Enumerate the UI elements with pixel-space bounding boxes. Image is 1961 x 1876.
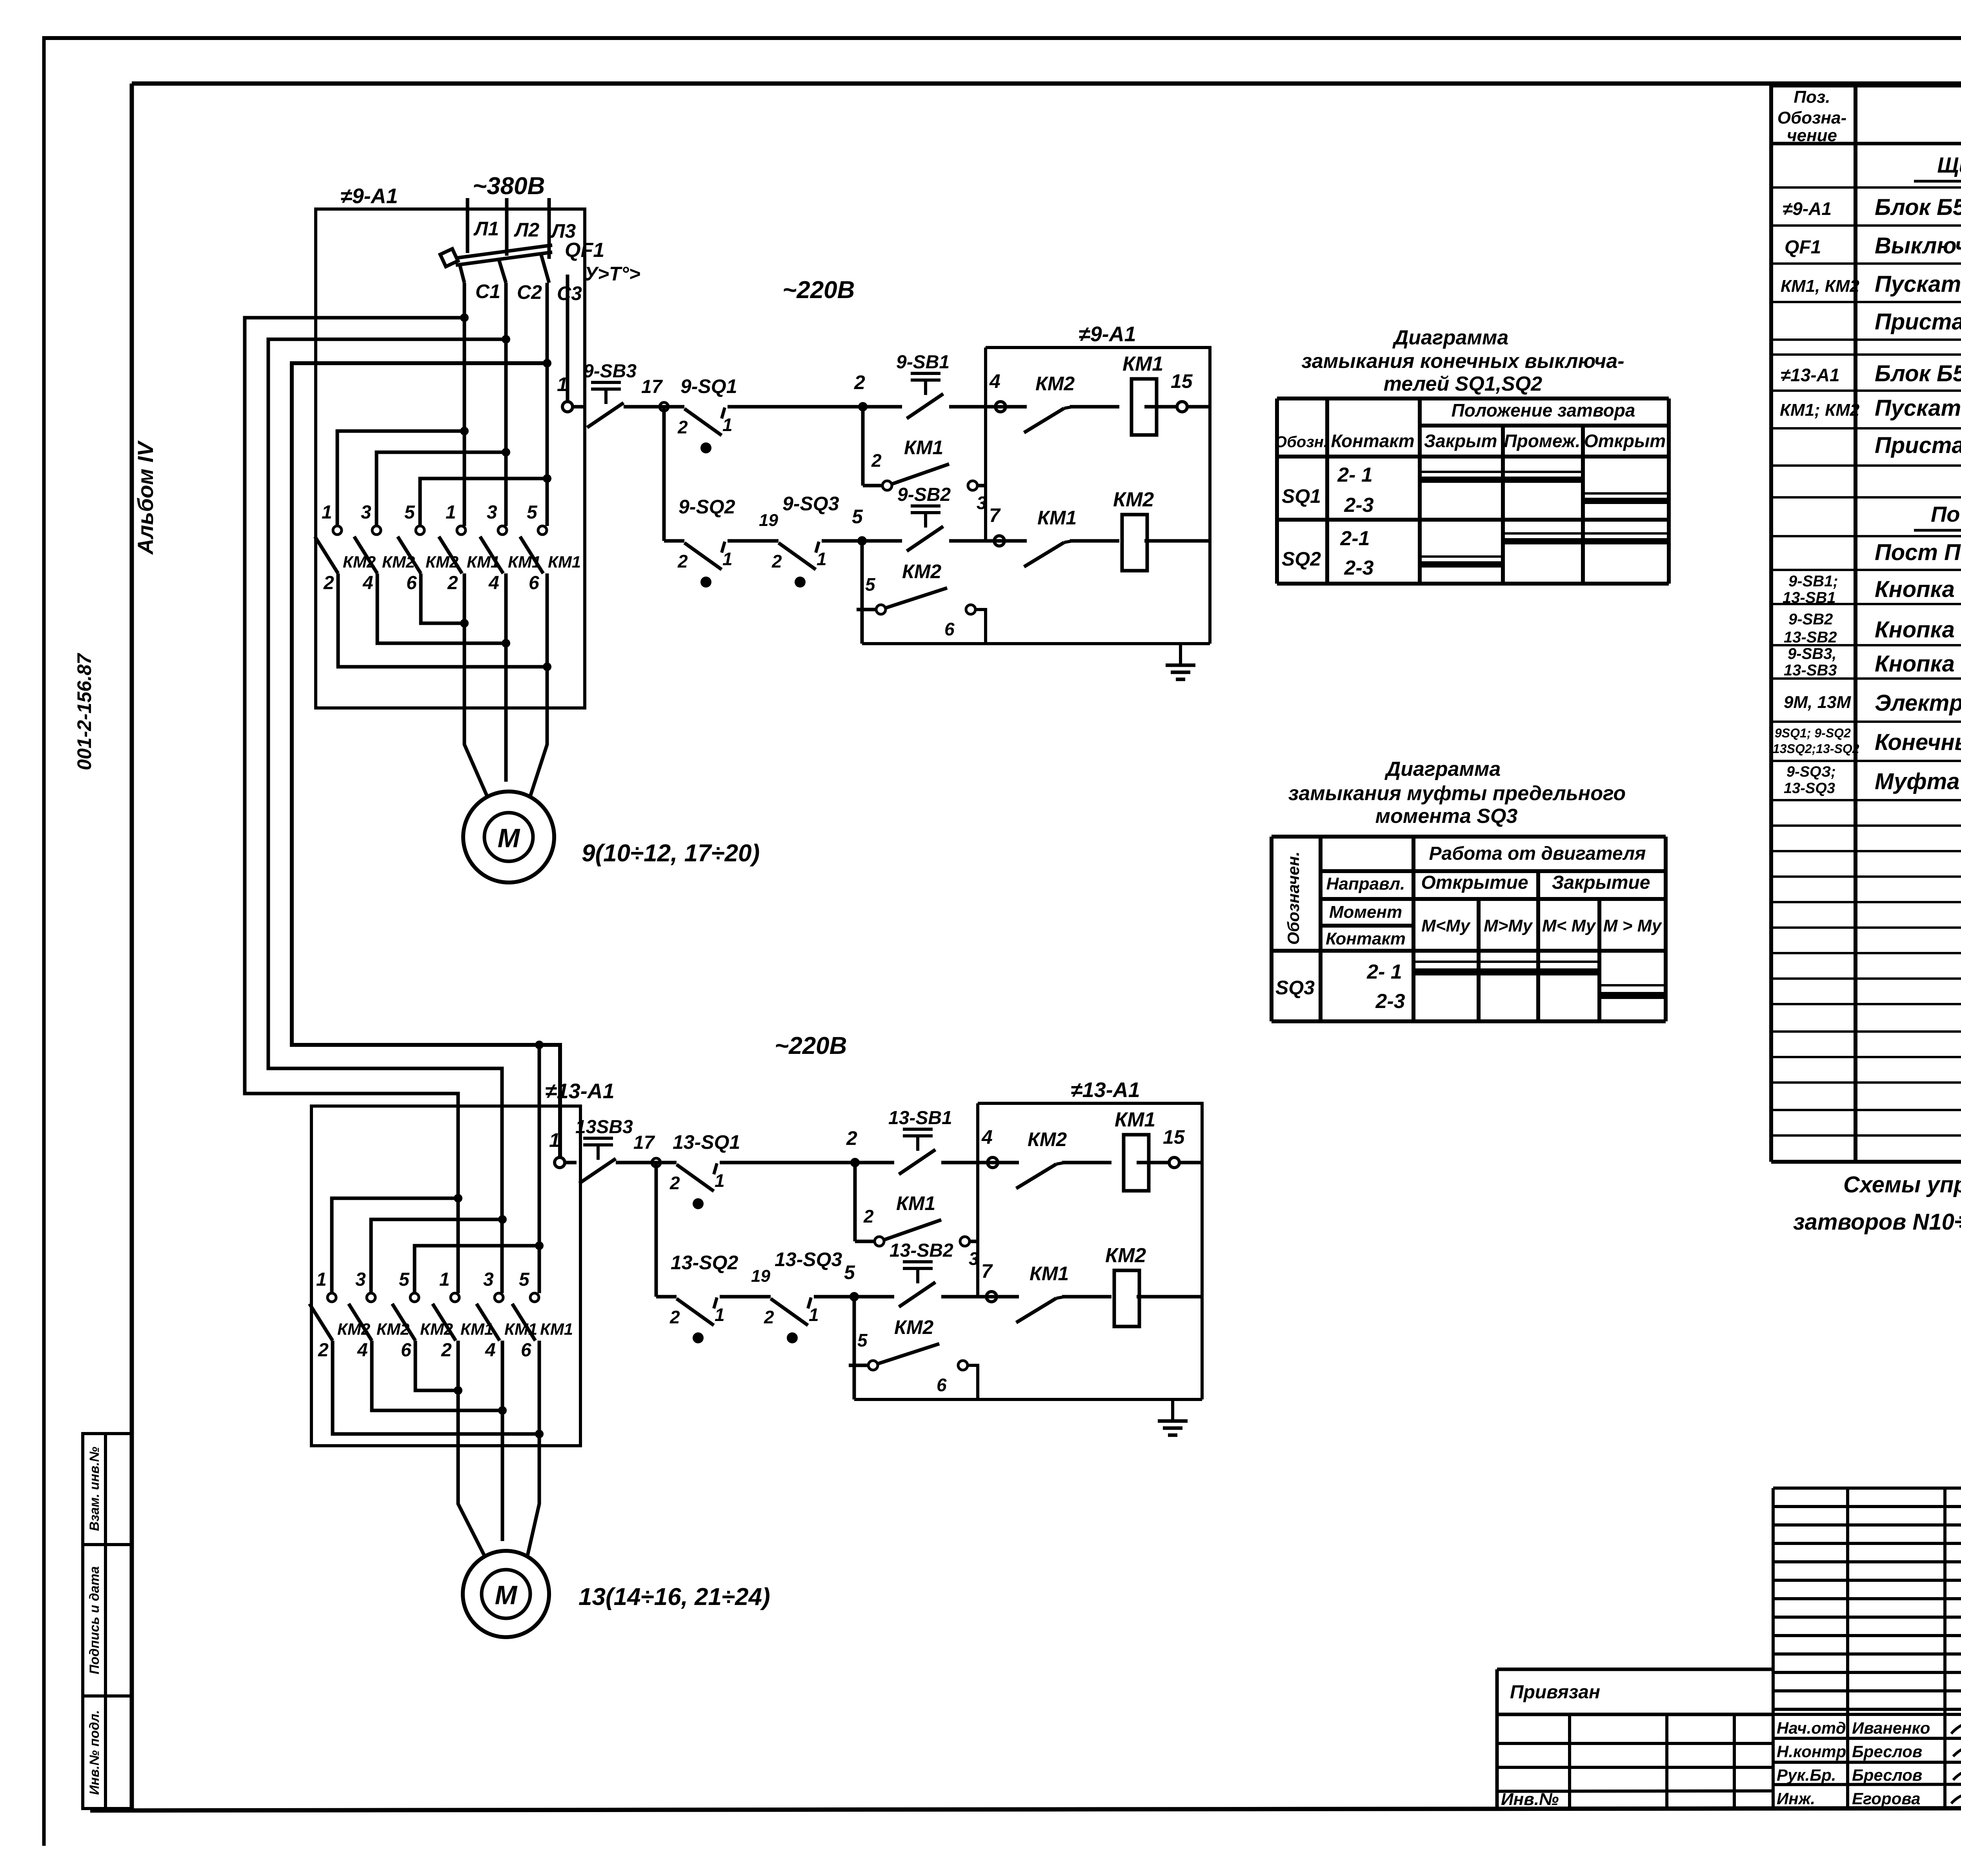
- svg-text:КМ1: КМ1: [1115, 1108, 1155, 1131]
- svg-text:С2: С2: [517, 281, 542, 303]
- button 13-SB1: [888, 1108, 952, 1174]
- svg-text:Кнопка 1з+1р „Стоп”: Кнопка 1з+1р „Стоп”: [1875, 651, 1961, 677]
- svg-text:КМ2: КМ2: [1035, 373, 1075, 395]
- svg-text:13SB3: 13SB3: [575, 1117, 633, 1137]
- node 5 9: [852, 506, 867, 546]
- wire supply loop B to lower unit: [268, 339, 506, 1293]
- svg-text:6: 6: [521, 1340, 531, 1361]
- svg-text:2-1: 2-1: [1340, 527, 1370, 550]
- svg-text:1: 1: [316, 1269, 327, 1290]
- svg-text:Работа от двигателя: Работа от двигателя: [1429, 843, 1646, 864]
- diagram2 table grid: [1272, 837, 1666, 1021]
- contact КМ2: [1016, 1128, 1067, 1188]
- wire motor feed lines 9: [464, 573, 547, 796]
- svg-text:КМ1: КМ1: [904, 437, 943, 459]
- svg-text:3: 3: [487, 502, 497, 523]
- svg-text:7: 7: [981, 1260, 993, 1282]
- svg-text:Подпись и дата: Подпись и дата: [87, 1566, 102, 1674]
- svg-text:затворов N10÷12; 14÷24 схемы а: затворов N10÷12; 14÷24 схемы аналогичны.: [1793, 1209, 1961, 1235]
- svg-text:17: 17: [641, 377, 663, 397]
- svg-text:Блок Б5437-3074гУхл4: Блок Б5437-3074гУхл4: [1875, 195, 1961, 220]
- svg-text:Закрытие: Закрытие: [1552, 872, 1650, 893]
- svg-text:9-SB3: 9-SB3: [583, 361, 637, 382]
- svg-text:2: 2: [441, 1340, 452, 1361]
- wire control tap from phase C3: [566, 275, 569, 402]
- svg-text:9-SB2: 9-SB2: [897, 484, 951, 505]
- svg-text:~380В: ~380В: [473, 173, 545, 200]
- parts table header row line: [1771, 142, 1961, 146]
- wire node5 down 13: [853, 1297, 856, 1399]
- diagram2 closure bar SQ3 2-1: [1413, 968, 1599, 975]
- svg-text:2: 2: [764, 1307, 774, 1327]
- wire return rail 13: [854, 1398, 1202, 1401]
- limit switch 13SQ1: [673, 1131, 740, 1153]
- svg-text:3: 3: [977, 493, 987, 513]
- wire control second row 9: [664, 539, 1210, 543]
- svg-text:2: 2: [669, 1307, 680, 1327]
- node 1 13: [549, 1129, 565, 1168]
- svg-text:1: 1: [439, 1269, 450, 1290]
- title block revision column grid: [1773, 1488, 1961, 1809]
- title block bottom-left grid: [1497, 1714, 1773, 1808]
- selfhold contact KM1 9: [863, 437, 987, 513]
- wire KM2 contact bottom loops 13: [333, 1341, 539, 1434]
- diagram2 subrow line SQ3: [1413, 962, 1666, 985]
- svg-text:Иваненко: Иваненко: [1852, 1719, 1930, 1737]
- svg-text:замыкания муфты предельного: замыкания муфты предельного: [1288, 782, 1626, 805]
- wire supply loop C to lower unit: [292, 363, 560, 1157]
- block box 13-A1 power: [311, 1079, 615, 1446]
- svg-text:КМ1, КМ2: КМ1, КМ2: [1781, 277, 1859, 296]
- svg-text:6: 6: [401, 1340, 411, 1361]
- svg-text:1: 1: [322, 502, 332, 523]
- wire KM2 contact top loops 13: [332, 1198, 539, 1293]
- svg-text:2-3: 2-3: [1344, 557, 1373, 579]
- svg-text:9(10÷12, 17÷20): 9(10÷12, 17÷20): [582, 840, 760, 867]
- svg-text:~220В: ~220В: [775, 1032, 847, 1059]
- svg-text:2- 1: 2- 1: [1366, 961, 1402, 983]
- svg-text:2-3: 2-3: [1344, 494, 1373, 517]
- svg-text:Пускатель ПМЛ150104В: Пускатель ПМЛ150104В: [1875, 271, 1961, 297]
- svg-text:5: 5: [865, 574, 876, 595]
- diagram1 subrow line SQ2: [1420, 533, 1669, 557]
- svg-text:13-SB2: 13-SB2: [1784, 629, 1837, 646]
- block box 9-А1 control: [986, 322, 1210, 644]
- svg-text:9-SQ2: 9-SQ2: [679, 496, 735, 518]
- svg-text:чение: чение: [1787, 126, 1837, 145]
- svg-text:3: 3: [355, 1269, 366, 1290]
- node 7 9: [989, 504, 1004, 546]
- svg-text:19: 19: [759, 511, 778, 530]
- button 9-SB1: [896, 352, 950, 419]
- svg-text:5: 5: [404, 502, 415, 523]
- svg-text:2: 2: [447, 573, 458, 593]
- wire node2 to selfhold 9: [861, 407, 865, 486]
- svg-text:3: 3: [361, 502, 371, 523]
- svg-text:1: 1: [817, 549, 827, 569]
- wire control main row 9: [572, 405, 1210, 409]
- svg-text:9-SQ1: 9-SQ1: [680, 375, 737, 397]
- svg-text:~220В: ~220В: [782, 277, 855, 304]
- svg-text:6: 6: [529, 573, 539, 593]
- stamp table bottom-left frame: [83, 1434, 131, 1809]
- svg-text:Блок Б5438 -3074гУхл4: Блок Б5438 -3074гУхл4: [1875, 361, 1961, 386]
- svg-text:4: 4: [989, 370, 1001, 392]
- title block signatures: [1951, 1722, 1961, 1808]
- svg-text:Конечные выключатели: Конечные выключатели: [1875, 730, 1961, 755]
- svg-text:13SQ2;13-SQ2: 13SQ2;13-SQ2: [1773, 742, 1859, 756]
- svg-text:SQ2: SQ2: [1282, 548, 1321, 570]
- wire return rail 9: [862, 642, 1210, 645]
- svg-text:≠9-А1: ≠9-А1: [1079, 322, 1136, 346]
- limit switch 9SQ1: [680, 375, 737, 397]
- svg-text:М>Му: М>Му: [1484, 916, 1534, 935]
- svg-text:Л2: Л2: [514, 219, 539, 241]
- svg-text:С3: С3: [557, 282, 582, 304]
- contact КМ2: [1024, 373, 1075, 433]
- svg-text:3: 3: [483, 1269, 494, 1290]
- svg-text:Инв.№: Инв.№: [1501, 1790, 1559, 1809]
- svg-text:7: 7: [989, 504, 1001, 526]
- svg-text:13-SQ1: 13-SQ1: [673, 1131, 740, 1153]
- page top border line: [42, 36, 1961, 40]
- wire branch to lower phase C: [538, 1045, 541, 1293]
- svg-text:13-SB1: 13-SB1: [888, 1108, 952, 1128]
- svg-text:13-SQ3: 13-SQ3: [775, 1248, 842, 1270]
- coil 9 KM2: [1113, 488, 1154, 571]
- svg-text:4: 4: [357, 1340, 368, 1361]
- svg-text:2-3: 2-3: [1375, 990, 1405, 1013]
- svg-text:1: 1: [722, 415, 733, 435]
- contact КМ1: [1024, 507, 1077, 567]
- svg-text:1: 1: [715, 1170, 725, 1191]
- svg-text:Кнопка 1з +1р „ Закрыть”: Кнопка 1з +1р „ Закрыть”: [1875, 617, 1961, 642]
- svg-text:2: 2: [846, 1127, 857, 1149]
- svg-text:М: М: [498, 823, 520, 853]
- button 13SB3: [575, 1117, 633, 1183]
- svg-text:Егорова: Егорова: [1852, 1789, 1921, 1808]
- wire node2 to selfhold 13: [853, 1163, 857, 1241]
- svg-text:Электродвигатель 4АХС 80А4У3: Электродвигатель 4АХС 80А4У3: [1875, 690, 1961, 716]
- node 2 9: [854, 371, 868, 411]
- svg-text:9М, 13М: 9М, 13М: [1784, 693, 1852, 712]
- svg-text:19: 19: [751, 1266, 770, 1286]
- svg-text:Приставка ПКЛ 2004: Приставка ПКЛ 2004: [1875, 309, 1961, 335]
- svg-text:9-SQ3: 9-SQ3: [782, 493, 839, 515]
- svg-text:9-SB2: 9-SB2: [1788, 611, 1833, 628]
- svg-text:6: 6: [944, 619, 955, 639]
- node 15 13: [1163, 1126, 1185, 1168]
- wire control main row 13: [564, 1161, 1202, 1165]
- svg-text:КМ2: КМ2: [1028, 1128, 1067, 1150]
- svg-text:5: 5: [857, 1330, 868, 1350]
- svg-text:Пускатель ПМЛ150104В: Пускатель ПМЛ150104В: [1875, 395, 1961, 421]
- svg-text:Приставка ПКЛ2004: Приставка ПКЛ2004: [1875, 433, 1961, 458]
- wire node17 down 9: [662, 407, 666, 541]
- svg-text:6: 6: [937, 1375, 947, 1395]
- svg-text:Контакт: Контакт: [1331, 431, 1414, 451]
- svg-text:КМ1; КМ2: КМ1; КМ2: [1780, 400, 1860, 420]
- svg-text:По месту: По месту: [1931, 502, 1961, 526]
- diagram1 closure bar SQ1 2-3: [1583, 498, 1669, 504]
- svg-text:Открыт: Открыт: [1584, 431, 1666, 451]
- selfhold contact KM2 9: [862, 610, 986, 644]
- svg-text:замыкания конечных выключа-: замыкания конечных выключа-: [1301, 350, 1624, 373]
- svg-text:1: 1: [809, 1305, 819, 1325]
- button 9-SB2: [897, 484, 951, 551]
- diagram1 closure bar SQ2 2-1: [1503, 538, 1669, 544]
- svg-text:9-SQЗ;: 9-SQЗ;: [1786, 764, 1836, 780]
- svg-text:1: 1: [715, 1305, 725, 1325]
- diagram1 table grid: [1277, 398, 1669, 584]
- svg-text:Момент: Момент: [1329, 903, 1402, 922]
- svg-text:Выключатель АЕ2026-10НУ3-Б: Выключатель АЕ2026-10НУ3-Б: [1875, 233, 1961, 258]
- block box 13-А1 control: [978, 1078, 1202, 1399]
- coil 13 KM2: [1105, 1244, 1146, 1326]
- svg-text:5: 5: [852, 506, 863, 528]
- button 13-SB2: [890, 1240, 953, 1307]
- svg-text:2: 2: [871, 450, 882, 471]
- terminal labels C1 C2 C3: [475, 280, 582, 304]
- diagram1 closure bar SQ1 2-1: [1420, 477, 1583, 483]
- circuit breaker QF1: [440, 239, 640, 285]
- node 2 13: [846, 1127, 860, 1167]
- svg-text:Альбом IV: Альбом IV: [133, 440, 158, 555]
- svg-text:Диаграмма: Диаграмма: [1392, 326, 1509, 349]
- node 7 13: [981, 1260, 997, 1302]
- svg-text:≠13-А1: ≠13-А1: [1071, 1078, 1140, 1102]
- svg-text:КМ2: КМ2: [1113, 488, 1154, 511]
- svg-text:9-SB1: 9-SB1: [896, 352, 950, 373]
- node 17 13: [633, 1132, 660, 1167]
- svg-text:КМ1: КМ1: [896, 1192, 935, 1214]
- svg-text:4: 4: [362, 573, 373, 593]
- svg-text:Обозн.: Обозн.: [1275, 433, 1328, 451]
- svg-text:5: 5: [844, 1261, 855, 1283]
- svg-text:9-SB1;: 9-SB1;: [1788, 573, 1838, 590]
- node 4 9: [989, 370, 1006, 412]
- svg-text:Н.контр: Н.контр: [1777, 1742, 1846, 1761]
- svg-text:Пост ПКЕ-112-3У3: Пост ПКЕ-112-3У3: [1875, 540, 1961, 565]
- block box 9-A1 power: [316, 184, 585, 708]
- svg-text:1: 1: [722, 549, 733, 569]
- svg-text:≠9-А1: ≠9-А1: [1783, 198, 1832, 219]
- phase input stubs L1 L2 L3: [468, 198, 576, 259]
- svg-text:Инв.№ подл.: Инв.№ подл.: [87, 1710, 102, 1795]
- diagram1 closure bar SQ2 2-3: [1420, 561, 1503, 568]
- diagram2 closure bar SQ3 2-3: [1599, 992, 1666, 999]
- wire KM2 contact bottom loops 9: [338, 573, 547, 667]
- svg-text:15: 15: [1171, 370, 1193, 392]
- svg-text:Обозначен.: Обозначен.: [1284, 852, 1302, 945]
- svg-text:М > Му: М > Му: [1603, 916, 1663, 935]
- svg-text:Схемы управления выполнены для: Схемы управления выполнены для затворов …: [1843, 1172, 1961, 1197]
- page outer left border line: [42, 36, 46, 1846]
- svg-text:Бреслов: Бреслов: [1852, 1742, 1922, 1761]
- wire control second row 13: [656, 1295, 1202, 1299]
- svg-text:С1: С1: [475, 280, 500, 302]
- svg-text:телей SQ1,SQ2: телей SQ1,SQ2: [1384, 373, 1543, 395]
- svg-text:У>Т°>: У>Т°>: [584, 263, 640, 285]
- svg-text:1: 1: [549, 1129, 560, 1151]
- limit switch 9SQ2: [679, 496, 778, 530]
- svg-text:Контакт: Контакт: [1326, 929, 1406, 948]
- svg-text:КМ1: КМ1: [1037, 507, 1077, 529]
- svg-text:1: 1: [557, 373, 568, 395]
- svg-text:КМ2: КМ2: [1105, 1244, 1146, 1267]
- svg-text:Диаграмма: Диаграмма: [1384, 758, 1501, 781]
- svg-text:2: 2: [771, 551, 782, 571]
- svg-text:М: М: [495, 1580, 518, 1610]
- svg-text:≠13-А1: ≠13-А1: [1781, 365, 1840, 385]
- svg-text:13-SB1: 13-SB1: [1783, 589, 1836, 606]
- svg-text:КМ1: КМ1: [548, 553, 581, 571]
- node 5 13: [844, 1261, 859, 1301]
- svg-text:13-SB3: 13-SB3: [1784, 662, 1837, 679]
- contactor power contacts 13: [309, 1269, 573, 1361]
- svg-text:5: 5: [399, 1269, 410, 1290]
- svg-text:5: 5: [519, 1269, 530, 1290]
- svg-text:КМ1: КМ1: [1030, 1263, 1069, 1285]
- wire node5 down 9: [860, 541, 864, 644]
- svg-text:Положение затвора: Положение затвора: [1452, 400, 1635, 420]
- diagram1 subrow line SQ1: [1420, 472, 1669, 493]
- svg-text:Открытие: Открытие: [1421, 872, 1528, 893]
- svg-text:15: 15: [1163, 1126, 1185, 1148]
- svg-text:2: 2: [318, 1340, 329, 1361]
- selfhold contact KM2 13: [854, 1365, 978, 1399]
- node 4 13: [981, 1126, 998, 1168]
- node 15 9: [1171, 370, 1193, 412]
- svg-text:13-SQ3: 13-SQ3: [1784, 780, 1835, 797]
- svg-text:4: 4: [485, 1340, 496, 1361]
- svg-text:Закрыт: Закрыт: [1424, 431, 1497, 451]
- svg-text:≠9-А1: ≠9-А1: [340, 184, 398, 208]
- svg-text:Поз.: Поз.: [1794, 87, 1830, 107]
- svg-text:Муфта предельного момента: Муфта предельного момента: [1875, 769, 1961, 794]
- svg-text:≠13-А1: ≠13-А1: [545, 1079, 615, 1103]
- wire motor feed lines 13: [458, 1341, 539, 1556]
- parts table row lines: [1771, 187, 1961, 1135]
- svg-text:QF1: QF1: [1785, 237, 1821, 258]
- title block privyazan cell: [1497, 1669, 1773, 1809]
- ground 13: [1158, 1399, 1188, 1435]
- svg-text:9-SB3,: 9-SB3,: [1788, 645, 1837, 662]
- svg-text:2: 2: [854, 371, 865, 393]
- wire node17 down 13: [655, 1163, 658, 1297]
- selfhold contact KM1 13: [855, 1192, 979, 1269]
- svg-text:КМ2: КМ2: [894, 1316, 933, 1338]
- svg-text:Л1: Л1: [473, 218, 499, 240]
- svg-text:2: 2: [677, 551, 688, 571]
- svg-text:1: 1: [446, 502, 456, 523]
- svg-text:Взам. инв.№: Взам. инв.№: [87, 1447, 102, 1531]
- svg-text:SQ1: SQ1: [1282, 485, 1321, 507]
- svg-text:момента SQ3: момента SQ3: [1375, 805, 1518, 828]
- svg-text:Инж.: Инж.: [1777, 1789, 1815, 1808]
- svg-text:Направл.: Направл.: [1326, 874, 1405, 893]
- svg-text:Рук.Бр.: Рук.Бр.: [1777, 1766, 1836, 1784]
- svg-text:КМ1: КМ1: [1122, 353, 1163, 375]
- svg-text:4: 4: [981, 1126, 993, 1148]
- button 9-SB3: [583, 361, 637, 428]
- svg-text:2: 2: [677, 417, 688, 437]
- parts table outer and column lines: [1771, 86, 1961, 1162]
- contactor power contacts 9: [315, 502, 581, 593]
- svg-text:Промеж.: Промеж.: [1504, 431, 1581, 451]
- contact КМ1: [1016, 1263, 1069, 1323]
- svg-text:17: 17: [633, 1132, 655, 1153]
- svg-text:9SQ1; 9-SQ2: 9SQ1; 9-SQ2: [1775, 726, 1851, 740]
- svg-text:КМ2: КМ2: [902, 560, 941, 582]
- svg-text:3: 3: [969, 1248, 979, 1269]
- svg-text:5: 5: [527, 502, 538, 523]
- wire selfhold to node4 13: [970, 1240, 978, 1243]
- svg-text:Кнопка 1з+1р „Открыть”: Кнопка 1з+1р „Открыть”: [1875, 577, 1961, 602]
- svg-text:Бреслов: Бреслов: [1852, 1766, 1922, 1784]
- wire KM2 contact top loops 9: [337, 431, 547, 526]
- svg-text:Щит Щ1: Щит Щ1: [1937, 153, 1961, 177]
- node 17 9: [641, 377, 668, 411]
- svg-text:2: 2: [669, 1173, 680, 1193]
- svg-text:2: 2: [863, 1206, 874, 1226]
- coil 13 KM1: [1115, 1108, 1155, 1191]
- svg-text:КМ1: КМ1: [540, 1320, 573, 1338]
- svg-text:6: 6: [406, 573, 417, 593]
- limit switch 13SQ3: [775, 1248, 842, 1270]
- svg-text:SQ3: SQ3: [1275, 977, 1315, 999]
- motor 9M: [463, 792, 554, 883]
- wire selfhold to node4 9: [977, 484, 986, 488]
- coil 9 KM1: [1122, 353, 1163, 435]
- wire supply loop A to lower unit: [245, 318, 464, 1293]
- limit switch 13SQ2: [671, 1252, 770, 1286]
- svg-text:М<Му: М<Му: [1421, 916, 1471, 935]
- svg-text:Привязан: Привязан: [1510, 1682, 1600, 1703]
- svg-text:13-SQ2: 13-SQ2: [671, 1252, 739, 1274]
- svg-text:13-SB2: 13-SB2: [890, 1240, 953, 1261]
- svg-text:2: 2: [323, 573, 334, 593]
- limit switch 9SQ3: [782, 493, 839, 515]
- wire phase verticals from QF1: [464, 283, 547, 526]
- svg-text:001-2-156.87: 001-2-156.87: [73, 653, 95, 770]
- ground 9: [1166, 644, 1195, 679]
- svg-text:М< Му: М< Му: [1542, 916, 1597, 935]
- svg-text:2- 1: 2- 1: [1337, 464, 1373, 486]
- svg-text:13(14÷16, 21÷24): 13(14÷16, 21÷24): [578, 1583, 770, 1610]
- node 1 9: [557, 373, 573, 412]
- svg-text:4: 4: [488, 573, 499, 593]
- svg-text:Обозна-: Обозна-: [1777, 108, 1847, 127]
- drawing frame bottom line: [90, 1796, 1961, 1810]
- motor 13M: [463, 1551, 549, 1637]
- svg-text:Нач.отд: Нач.отд: [1777, 1719, 1846, 1737]
